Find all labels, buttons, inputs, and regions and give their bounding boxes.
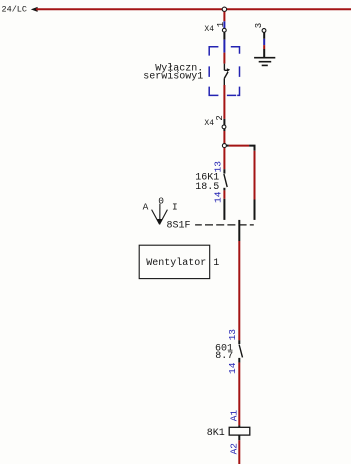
svg-text:8K1: 8K1 xyxy=(207,428,225,439)
ground symbol bars xyxy=(254,58,275,66)
wire right pole (black) xyxy=(254,200,256,220)
wire below 16K1 (red) xyxy=(223,190,225,198)
wire ground drop (black) xyxy=(263,33,265,39)
svg-text:serwisowy1: serwisowy1 xyxy=(143,71,203,83)
selector 8S1F actuator wedge xyxy=(157,219,162,225)
wire left pole of selector (black) xyxy=(223,199,225,220)
coil 8K1 box xyxy=(229,427,250,435)
wire into coil (black) xyxy=(238,425,240,427)
wire into 16K1 (black) xyxy=(223,169,225,173)
wire 24/LC horizontal rail xyxy=(36,8,351,10)
svg-text:13: 13 xyxy=(227,329,238,341)
node junction on rail xyxy=(222,7,226,11)
wire X4:2 to node (red) xyxy=(223,131,225,143)
wire branch horizontal (black stub) xyxy=(227,145,229,147)
svg-text:14: 14 xyxy=(213,191,224,203)
terminal X4 circle pin 2 xyxy=(222,125,226,129)
svg-text:Wentylator: Wentylator xyxy=(146,257,206,269)
wire X4:1 to switch (black) xyxy=(223,32,225,39)
svg-text:1: 1 xyxy=(213,258,219,269)
contact 16K1 blade xyxy=(224,174,227,187)
svg-text:A: A xyxy=(143,201,149,212)
wire 24/LC rail arrow xyxy=(31,7,38,12)
dashed box service switch xyxy=(209,47,239,96)
svg-text:3: 3 xyxy=(254,23,264,28)
wire 601 to coil (red) xyxy=(238,363,240,426)
svg-text:1: 1 xyxy=(216,22,226,27)
wire right pole (red) xyxy=(254,151,256,200)
wire ground drop (blue) xyxy=(263,39,265,45)
svg-text:2: 2 xyxy=(215,115,225,120)
svg-text:14: 14 xyxy=(227,362,238,374)
svg-text:8.7: 8.7 xyxy=(215,351,233,362)
svg-text:X4: X4 xyxy=(204,119,214,128)
wire ground drop (red) xyxy=(263,45,265,49)
svg-text:8S1F: 8S1F xyxy=(167,221,191,232)
wire X4:1 to switch (blue) xyxy=(223,40,225,53)
selector 8S1F actuator spokes xyxy=(152,204,168,225)
wire coil to edge (red) xyxy=(238,440,240,464)
wire below 16K1 (black stub) xyxy=(223,188,225,191)
selector blade (black) xyxy=(238,220,240,241)
wire node to 16K1 (red) xyxy=(223,148,225,169)
svg-text:0: 0 xyxy=(158,196,164,207)
box Wentylator 1 xyxy=(139,245,210,278)
wire selector to 601 (red) xyxy=(238,241,240,340)
wire branch horizontal (red) xyxy=(229,145,249,147)
node branch junction xyxy=(222,144,226,148)
mechanical linkage dashed xyxy=(195,224,254,226)
wire below coil (black stub) xyxy=(238,435,240,440)
wire rail to X4:1 (blue) xyxy=(223,21,225,28)
svg-text:I: I xyxy=(172,201,178,212)
terminal X4 circle pin 1 xyxy=(222,28,226,32)
svg-text:13: 13 xyxy=(213,161,224,173)
switch actuator arrowhead xyxy=(227,68,230,72)
wire ground drop (black lower) xyxy=(263,49,265,57)
wire X4:2 to node (black stub) xyxy=(223,129,225,131)
svg-text:A1: A1 xyxy=(229,410,240,422)
svg-text:X4: X4 xyxy=(204,25,214,34)
svg-text:24/LC: 24/LC xyxy=(2,5,28,15)
wire below 601 (black stub) xyxy=(238,358,240,363)
wire to X4:2 (black) xyxy=(223,119,225,125)
wire branch corner (black) xyxy=(249,146,254,151)
wire into 601 (black) xyxy=(238,340,240,344)
wire into switch (red) xyxy=(223,53,225,64)
wire switch to X4:2 (red) xyxy=(223,85,225,119)
svg-text:A2: A2 xyxy=(229,443,240,455)
wire rail to X4:1 (red) xyxy=(223,12,225,22)
contact 601 blade xyxy=(239,345,242,358)
svg-text:18.5: 18.5 xyxy=(195,182,219,193)
switch S1 contact (manual switch) xyxy=(224,64,228,85)
ground terminal circle xyxy=(262,29,266,33)
